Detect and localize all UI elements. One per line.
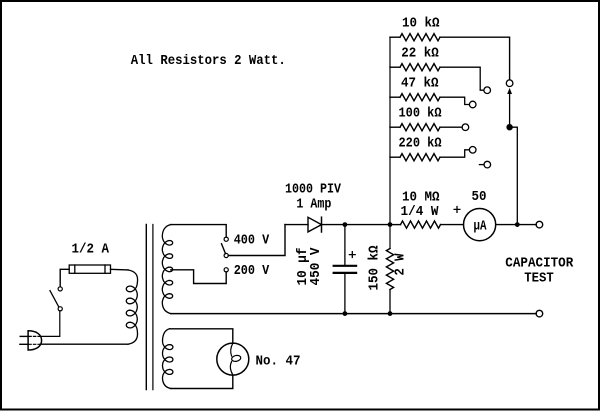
wire lamp top bbox=[170, 329, 233, 343]
wire wiper to meter junction bbox=[510, 127, 518, 224]
terminal capacitor test minus bbox=[536, 310, 543, 317]
wire R3 to rotary contact 3 bbox=[440, 97, 469, 104]
resistor R1 10 kΩ bbox=[390, 34, 440, 41]
transformer lamp winding bbox=[163, 329, 173, 389]
resistor R2 22 kΩ bbox=[390, 64, 440, 71]
capacitor 10 uf 450 V bbox=[334, 225, 356, 314]
svg-text:No. 47: No. 47 bbox=[256, 354, 301, 370]
junction rail-bus bbox=[388, 222, 393, 227]
meter 50 uA bbox=[464, 209, 496, 241]
bottom rail wire bbox=[171, 313, 536, 315]
svg-text:150 kΩ: 150 kΩ bbox=[366, 245, 382, 291]
wire switch to fuse bbox=[60, 269, 69, 287]
rotary contact 3 bbox=[469, 101, 476, 108]
junction diode-capacitor bbox=[343, 222, 348, 227]
terminal capacitor test plus bbox=[536, 221, 543, 228]
capacitor plus sign bbox=[349, 252, 355, 258]
wire plug to switch bbox=[40, 311, 59, 336]
rotary contact 1 bbox=[506, 80, 513, 87]
transformer core bbox=[146, 225, 153, 390]
svg-text:50: 50 bbox=[472, 189, 487, 205]
svg-text:2 W: 2 W bbox=[393, 253, 409, 276]
wire secondary center tap to 200V contact bbox=[171, 270, 226, 284]
wire selector pivot to diode rail bbox=[228, 225, 285, 256]
svg-text:CAPACITOR: CAPACITOR bbox=[505, 255, 574, 271]
junction meter-wiper bbox=[515, 222, 520, 227]
svg-text:1/2 A: 1/2 A bbox=[72, 241, 110, 257]
svg-text:47 kΩ: 47 kΩ bbox=[401, 75, 439, 91]
wire secondary top to 400V contact bbox=[171, 225, 227, 238]
svg-text:22 kΩ: 22 kΩ bbox=[401, 45, 439, 61]
wire rail to bus bbox=[345, 224, 390, 226]
svg-text:µA: µA bbox=[474, 218, 487, 234]
wire R4 to rotary contact 4 bbox=[440, 126, 462, 128]
svg-text:1 Amp: 1 Amp bbox=[296, 197, 331, 213]
svg-text:400 V: 400 V bbox=[234, 233, 270, 249]
svg-text:10 kΩ: 10 kΩ bbox=[402, 15, 440, 31]
AC plug bbox=[20, 331, 42, 350]
bus wire left of resistor bank bbox=[389, 37, 391, 248]
wire meter to test terminal bbox=[496, 224, 537, 226]
rotary contact 6 stub bbox=[479, 164, 484, 166]
svg-text:TEST: TEST bbox=[524, 270, 554, 286]
junction capacitor bottom bbox=[343, 311, 348, 316]
svg-text:All Resistors 2 Watt.: All Resistors 2 Watt. bbox=[131, 53, 286, 69]
wire lamp bottom bbox=[171, 375, 233, 388]
wire 150k to bottom rail bbox=[389, 290, 391, 314]
resistor R3 47 kΩ bbox=[390, 94, 440, 101]
fuse 1/2 A bbox=[69, 265, 110, 273]
transformer primary winding bbox=[126, 270, 137, 344]
lamp No. 47 bbox=[217, 343, 249, 375]
svg-text:100 kΩ: 100 kΩ bbox=[399, 105, 442, 121]
junction 150k bottom bbox=[388, 311, 393, 316]
200 V tap contact bbox=[224, 268, 228, 272]
rotary contact 5 bbox=[469, 147, 476, 154]
rotary wiper arrow bbox=[506, 88, 512, 130]
wire primary bottom to plug bbox=[40, 343, 128, 345]
diode 1000 PIV 1 Amp bbox=[285, 217, 345, 232]
svg-text:450 V: 450 V bbox=[308, 247, 324, 286]
power switch bbox=[50, 287, 62, 311]
rotary contact 4 bbox=[462, 124, 469, 131]
svg-text:200 V: 200 V bbox=[234, 263, 270, 279]
resistor R5 220 kΩ bbox=[390, 154, 440, 161]
svg-text:220 kΩ: 220 kΩ bbox=[399, 135, 442, 151]
resistor 150 kOhm 2 W bbox=[386, 249, 393, 290]
wire R5 to rotary contact 5 bbox=[440, 150, 469, 157]
resistor R4 100 kΩ bbox=[390, 124, 440, 131]
rotary contact 6 bbox=[484, 161, 491, 168]
wire fuse to primary bbox=[111, 268, 129, 271]
wire R1 to rotary contact 1 bbox=[440, 37, 510, 79]
svg-text:1/4 W: 1/4 W bbox=[401, 204, 440, 220]
wire R2 to rotary contact 2 bbox=[440, 67, 484, 90]
meter plus sign bbox=[454, 207, 460, 213]
selector switch arm bbox=[222, 244, 229, 258]
rotary contact 2 bbox=[484, 87, 491, 94]
resistor 10 MOhm 1/4 W bbox=[390, 221, 463, 228]
transformer secondary winding bbox=[162, 225, 172, 314]
400 V tap contact bbox=[224, 237, 228, 241]
svg-text:1000 PIV: 1000 PIV bbox=[285, 182, 341, 198]
